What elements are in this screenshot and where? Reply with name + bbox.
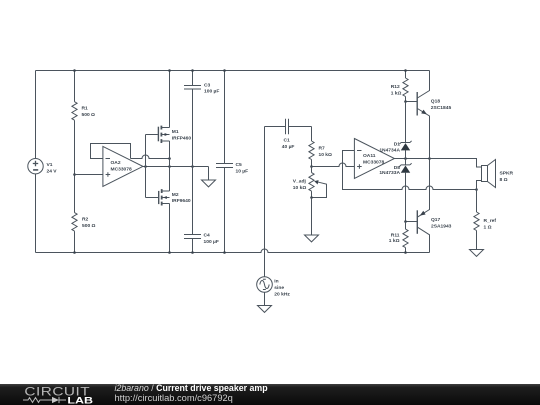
svg-text:IRF9640: IRF9640 [172, 198, 191, 204]
svg-text:C1: C1 [284, 138, 291, 144]
svg-text:R12: R12 [391, 84, 400, 90]
wire M1 source to M2 source [169, 141, 171, 191]
label Q17 2SA1943 [431, 217, 452, 229]
node dot M2 drain rail [168, 251, 171, 254]
svg-text:R2: R2 [82, 217, 89, 223]
diode D8 1N4733A zener [399, 159, 411, 222]
label M2 IRF9640 [172, 192, 191, 204]
speaker SPKR [430, 159, 496, 190]
label In sine 20kHz [274, 279, 290, 298]
label C4 100uF [204, 232, 219, 244]
wire OA11 noninverting input with hop [312, 163, 355, 167]
node dot output source line [168, 165, 171, 168]
wire gate drive vertical [145, 135, 147, 198]
svg-text:20 kHz: 20 kHz [274, 291, 290, 297]
node dot feedback R_ref [475, 188, 478, 191]
voltage source V1 [28, 159, 43, 174]
svg-text:D1: D1 [394, 141, 401, 147]
node dot C5 bottom rail [223, 251, 226, 254]
label R1 500 [82, 106, 96, 119]
svg-text:M2: M2 [172, 192, 179, 198]
wire R1 R2 branch top lead [74, 71, 76, 102]
node dot feedback source junction [168, 157, 171, 160]
resistor R12 [403, 71, 408, 102]
op-amp OA2 [103, 146, 143, 186]
node dot top rail R1 branch [73, 69, 76, 72]
svg-text:V_adj: V_adj [293, 179, 307, 185]
capacitor C5 [216, 71, 233, 253]
wire M1 gate stub [146, 134, 158, 136]
svg-text:OA11: OA11 [363, 153, 376, 159]
wire OA2 output [143, 166, 209, 168]
diode D1 1N4734A zener [399, 102, 411, 159]
wire top rail [36, 70, 430, 72]
node dot Q18 base [404, 100, 407, 103]
svg-text:2SA1943: 2SA1943 [431, 224, 452, 230]
wire M2 gate stub [146, 197, 159, 199]
label C1 40uF [282, 138, 295, 150]
svg-text:10 kΩ: 10 kΩ [293, 185, 307, 191]
svg-text:R11: R11 [391, 232, 400, 238]
wire V1 bottom lead [35, 174, 37, 253]
node dot C5 top rail [223, 69, 226, 72]
svg-text:OA2: OA2 [111, 160, 121, 166]
label D8 1N4733A [379, 165, 400, 176]
node dot R11 rail [404, 251, 407, 254]
transistor M1 IRFP460 [158, 126, 169, 143]
svg-text:sine: sine [274, 285, 284, 291]
ground V_adj [305, 198, 319, 242]
svg-text:R1: R1 [82, 106, 89, 112]
svg-text:SPKR: SPKR [500, 170, 514, 176]
capacitor C3 [184, 71, 201, 167]
wire R1 bottom to R2 top [74, 120, 76, 212]
label OA2 MC33078 [111, 160, 132, 172]
svg-text:10 kΩ: 10 kΩ [319, 152, 333, 158]
label R2 500 [82, 217, 96, 230]
svg-text:LAB: LAB [67, 396, 93, 405]
label OA11 MC33078 [363, 153, 384, 165]
label C5 10uF [236, 162, 249, 174]
resistor R11 [403, 222, 408, 253]
node dot R7 Vadj tap [310, 165, 313, 168]
svg-text:M1: M1 [172, 129, 179, 135]
label V1 24 V [47, 162, 58, 174]
svg-text:1N4733A: 1N4733A [379, 170, 400, 176]
transistor Q18 2SC1845 [406, 71, 430, 159]
svg-text:10 µF: 10 µF [236, 169, 249, 175]
ground R_ref [470, 250, 484, 257]
wire In source vertical [264, 127, 266, 277]
node dot R12 rail [404, 69, 407, 72]
wire R2 bottom lead [74, 231, 76, 252]
node dot Q17 base [404, 220, 407, 223]
node dot C3 rail [191, 69, 194, 72]
ground output node [202, 167, 216, 187]
source In sine generator [257, 277, 273, 293]
svg-text:1 kΩ: 1 kΩ [391, 90, 402, 96]
svg-text:C5: C5 [236, 162, 243, 168]
wire M2 drain lead [169, 204, 171, 253]
svg-text:1N4734A: 1N4734A [379, 147, 400, 153]
node dot output emitter junction [428, 157, 431, 160]
label Q18 2SC1845 [431, 98, 452, 110]
svg-text:IRFP460: IRFP460 [172, 135, 192, 141]
resistor R2 [72, 213, 77, 232]
wire OA11 feedback with hops [343, 151, 477, 190]
svg-text:In: In [274, 279, 278, 285]
svg-text:MC33078: MC33078 [363, 159, 384, 165]
label R12 1k [391, 84, 402, 96]
svg-text:40 µF: 40 µF [282, 144, 295, 150]
svg-text:100 µF: 100 µF [204, 239, 219, 245]
capacitor C1 [265, 119, 312, 135]
svg-text:V1: V1 [47, 162, 53, 168]
label C3 100uF [204, 82, 219, 94]
wire M1 drain lead [169, 71, 171, 128]
svg-text:http://circuitlab.com/c96792q: http://circuitlab.com/c96792q [115, 393, 233, 403]
wire OA2 noninverting input [75, 174, 103, 176]
svg-text:8 Ω: 8 Ω [500, 177, 508, 183]
wire OA11 output [394, 158, 476, 160]
svg-text:1 kΩ: 1 kΩ [389, 238, 400, 244]
wire bottom rail (hop over In source line) [36, 249, 430, 252]
node dot output C3 C4 line [191, 165, 194, 168]
capacitor C4 [184, 167, 201, 253]
svg-text:C3: C3 [204, 82, 211, 88]
node dot output gate line [144, 165, 147, 168]
svg-text:i2barano / Current drive speak: i2barano / Current drive speaker amp [115, 383, 269, 393]
label R_ref 1ohm [484, 218, 497, 230]
svg-text:2SC1845: 2SC1845 [431, 105, 452, 111]
svg-text:MC33078: MC33078 [111, 166, 132, 172]
op-amp OA11 [354, 139, 394, 179]
node dot divider tap [73, 173, 76, 176]
label R11 1k [389, 232, 400, 244]
label M1 IRFP460 [172, 129, 192, 141]
label V_adj 10k [293, 179, 307, 191]
svg-text:Q18: Q18 [431, 98, 441, 104]
footer bar [0, 384, 540, 405]
svg-text:500 Ω: 500 Ω [82, 112, 96, 118]
label R7 10k [319, 145, 333, 157]
ground In source [258, 292, 272, 312]
node dot M1 drain rail [168, 69, 171, 72]
wire feedback to source node with hop [131, 155, 170, 158]
potentiometer V_adj [309, 167, 327, 198]
svg-text:R_ref: R_ref [484, 218, 497, 224]
resistor R_ref [474, 190, 479, 250]
node dot R2 bottom rail [73, 251, 76, 254]
logo doodle resistor diode [23, 397, 66, 403]
node dot C4 rail [191, 251, 194, 254]
svg-text:C4: C4 [204, 232, 211, 238]
transistor M2 IRF9640 [159, 189, 170, 205]
svg-text:100 µF: 100 µF [204, 89, 219, 95]
resistor R1 [72, 102, 77, 120]
wire OA2 feedback loop [91, 144, 131, 159]
svg-text:R7: R7 [319, 145, 326, 151]
svg-text:24 V: 24 V [47, 168, 58, 174]
resistor R7 [309, 127, 314, 167]
label D1 1N4734A [379, 141, 400, 153]
transistor Q17 2SA1943 [406, 159, 430, 253]
label SPKR 8ohm [500, 170, 514, 182]
node dot output zener junction [404, 157, 407, 160]
wire left vertical V1 top lead [35, 71, 37, 159]
svg-text:1 Ω: 1 Ω [484, 224, 492, 230]
svg-text:Q17: Q17 [431, 217, 441, 223]
svg-text:500 Ω: 500 Ω [82, 223, 96, 229]
node dot V_adj bottom [310, 196, 313, 199]
